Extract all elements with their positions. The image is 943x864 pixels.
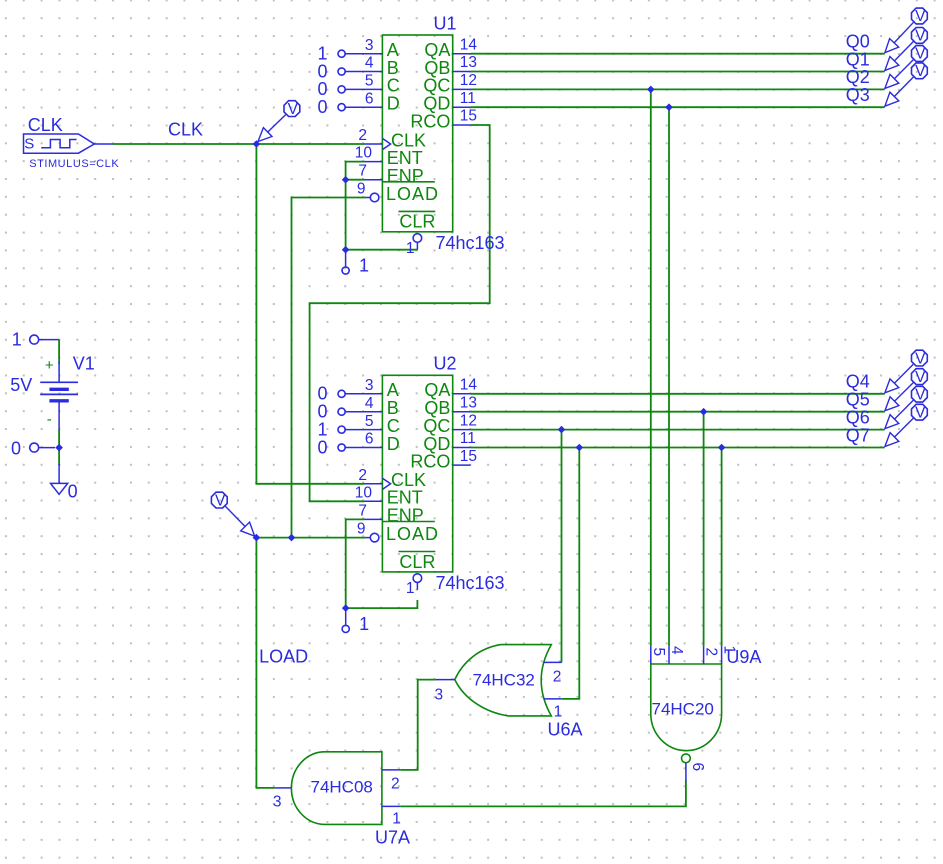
svg-text:ENT: ENT: [387, 488, 423, 508]
svg-text:V: V: [288, 101, 299, 118]
wire Q6 tap to U6A pin 2: [561, 430, 563, 663]
svg-text:7: 7: [358, 163, 367, 180]
voltage probe Q5: [885, 369, 927, 411]
svg-text:5: 5: [650, 648, 667, 657]
svg-text:5: 5: [365, 73, 374, 90]
U1 pin 7 (ENP) stub: [358, 163, 382, 180]
U1 output pin 14 (QA) stub: [453, 36, 478, 53]
U1 output pin 12 (QC) stub: [453, 72, 477, 89]
wire Q0 net (U1 QA to probe): [471, 53, 885, 55]
svg-text:74HC20: 74HC20: [652, 699, 714, 718]
U2 output pin 12 (QC) stub: [453, 412, 477, 429]
voltage probe Q3: [885, 63, 927, 106]
U1 output pin 13 (QB) stub: [453, 54, 477, 71]
LOAD junction: [253, 534, 261, 542]
svg-text:13: 13: [460, 54, 477, 71]
svg-text:V: V: [915, 63, 926, 80]
svg-text:CLR: CLR: [399, 552, 435, 572]
svg-text:6: 6: [365, 90, 374, 107]
svg-text:LOAD: LOAD: [259, 647, 308, 667]
counter U1 74HC163 body: [382, 35, 452, 232]
svg-text:2: 2: [553, 668, 562, 685]
svg-text:3: 3: [365, 37, 374, 54]
svg-text:1: 1: [554, 703, 563, 720]
svg-text:Q7: Q7: [846, 425, 870, 445]
svg-text:11: 11: [460, 430, 476, 447]
svg-text:4: 4: [365, 55, 374, 72]
svg-text:2: 2: [702, 648, 719, 657]
svg-text:V: V: [915, 28, 926, 45]
svg-text:1: 1: [359, 614, 369, 634]
svg-text:V: V: [915, 350, 926, 367]
wire Q6 net (U2 QC to probe): [471, 429, 885, 431]
U7A pin 3 (output) stub: [273, 788, 292, 811]
U6A pin 2 stub: [544, 662, 562, 685]
svg-text:RCO: RCO: [410, 111, 450, 131]
U2 CLR junction: [342, 604, 350, 612]
AND gate U7A 74HC08 (mirrored, output left): [291, 752, 382, 825]
U2 pin 9 (LOAD) bubble: [357, 521, 379, 542]
wire Q3 net (U1 QD to probe): [471, 106, 885, 108]
svg-text:4: 4: [365, 395, 374, 412]
svg-text:3: 3: [365, 377, 374, 394]
U6A pin 1 stub: [544, 699, 563, 720]
svg-text:1: 1: [12, 329, 22, 349]
digital stimulus DSTM1 CLK symbol: [24, 134, 113, 153]
svg-text:D: D: [387, 94, 400, 114]
wire Q5 net (U2 QB to probe): [471, 411, 885, 413]
svg-text:1: 1: [720, 646, 737, 655]
svg-text:74hc163: 74hc163: [436, 573, 505, 593]
voltage probe Q4: [885, 350, 927, 393]
voltage probe Q6: [885, 386, 927, 428]
svg-text:U1: U1: [434, 14, 457, 34]
svg-text:15: 15: [460, 108, 477, 125]
wire U1 RCO to U2 ENT: [310, 125, 490, 501]
U1 input pin 5 (C) with value 0: [317, 73, 382, 100]
U2 input pin 6 (D) with value 0: [317, 431, 382, 458]
OR gate U6A 74HC32 (mirrored, output left): [455, 645, 552, 716]
svg-text:11: 11: [460, 90, 476, 107]
svg-text:S: S: [24, 136, 34, 153]
U1 high port (1) below CLR: [342, 250, 369, 276]
svg-text:6: 6: [689, 763, 706, 772]
V1 port 0 (ground node): [11, 438, 55, 458]
svg-text:3: 3: [273, 793, 282, 810]
voltage probe on LOAD net: [211, 492, 254, 536]
svg-text:-: -: [47, 411, 52, 428]
voltage probe Q7: [885, 404, 927, 446]
U2 pin 2 (CLK) stub: [358, 467, 382, 484]
counter U2 74HC163 body: [382, 375, 452, 572]
svg-text:V: V: [915, 8, 926, 25]
svg-text:14: 14: [460, 36, 478, 53]
U1 ENP junction: [342, 176, 350, 184]
svg-text:2: 2: [358, 127, 367, 144]
wire Q5 tap to U9A pin 2: [703, 412, 705, 647]
ground symbol 0: [51, 464, 78, 502]
svg-text:V: V: [915, 369, 926, 386]
svg-text:0: 0: [317, 97, 327, 117]
Q6 tap junction: [558, 426, 566, 434]
U1 input pin 3 (A) with value 1: [317, 37, 382, 64]
U9A pin 4 stub: [668, 646, 685, 664]
svg-text:12: 12: [460, 72, 477, 89]
U9A pin 2 stub: [702, 646, 719, 664]
svg-text:15: 15: [460, 448, 477, 465]
U1 pin 2 (CLK) stub: [358, 127, 382, 144]
wire Q4 net (U2 QA to probe): [471, 393, 885, 395]
U7A pin 1 stub: [382, 806, 401, 827]
svg-text:D: D: [387, 434, 400, 454]
svg-text:U6A: U6A: [548, 720, 583, 740]
svg-text:RCO: RCO: [410, 451, 450, 471]
wire Q7 tap to U9A pin 1: [721, 448, 723, 647]
U7A pin 2 stub: [382, 770, 400, 792]
svg-text:LOAD: LOAD: [386, 184, 439, 204]
svg-text:V: V: [915, 404, 926, 421]
U2 pin 10 (ENT) stub: [355, 484, 383, 501]
Q7 tap junction B: [718, 444, 726, 452]
V1 ground junction: [55, 444, 63, 452]
svg-text:U2: U2: [434, 354, 457, 374]
Q7 tap junction A: [576, 444, 584, 452]
wire Q7 tap to U6A pin 1: [562, 448, 580, 699]
U2 input pin 5 (C) with value 1: [317, 413, 382, 440]
battery V1: [40, 362, 78, 431]
svg-text:3: 3: [435, 687, 444, 704]
U1 pin 10 (ENT) stub: [355, 145, 383, 162]
wire U2 ENP/CLR tie: [346, 519, 418, 608]
svg-text:74HC08: 74HC08: [311, 778, 373, 797]
U9A pin 5 stub: [650, 646, 667, 664]
svg-text:5: 5: [365, 413, 374, 430]
wire U1 ENP branch: [346, 179, 365, 181]
wire LOAD net down to U7A output: [256, 538, 275, 788]
voltage probe Q2: [885, 46, 927, 89]
svg-text:2: 2: [391, 775, 400, 792]
CLK junction: [253, 140, 261, 148]
Q3 tap junction: [665, 103, 673, 111]
U2 pin 1 (CLR) bubble and stub: [406, 574, 422, 597]
U2 output pin 11 (QD) stub: [453, 430, 476, 447]
wire U6A output to U7A pin 2: [400, 680, 436, 770]
U2 output pin 15 (RCO) stub: [453, 448, 477, 465]
svg-text:CLK: CLK: [28, 115, 63, 135]
wire CLK net: vertical drop to U2 CLK: [256, 144, 364, 484]
svg-text:9: 9: [357, 181, 366, 198]
svg-text:1: 1: [406, 240, 415, 257]
Q2 tap junction: [647, 86, 655, 94]
U1 LOAD junction: [288, 534, 296, 542]
svg-text:1: 1: [359, 256, 369, 276]
U1 pin 1 (CLR) bubble and stub: [406, 234, 422, 257]
svg-text:Q3: Q3: [846, 85, 870, 105]
svg-text:74HC32: 74HC32: [473, 671, 535, 690]
wire V1 minus: [58, 430, 60, 448]
wire U1 ENT/ENP/CLR tie: [346, 162, 418, 250]
svg-text:ENT: ENT: [387, 148, 423, 168]
svg-text:V: V: [215, 492, 226, 509]
svg-text:7: 7: [358, 502, 367, 519]
svg-text:CLK: CLK: [168, 120, 203, 140]
svg-text:10: 10: [355, 484, 373, 501]
U2 pin 7 (ENP) stub: [358, 502, 382, 519]
wire to ground: [58, 448, 60, 465]
wire V1 plus: [58, 340, 60, 364]
wire Q1 net (U1 QB to probe): [471, 71, 885, 73]
V1 port 1 (plus terminal node): [12, 329, 59, 349]
Q5 tap junction: [700, 408, 708, 416]
voltage probe Q1: [885, 28, 927, 71]
svg-text:12: 12: [460, 412, 477, 429]
U2 high port (1) below CLR: [342, 608, 369, 634]
U1 input pin 4 (B) with value 0: [317, 55, 382, 82]
svg-text:14: 14: [460, 377, 478, 394]
svg-text:9: 9: [357, 521, 366, 538]
svg-text:13: 13: [460, 394, 477, 411]
U1 pin 9 (LOAD) bubble: [357, 181, 379, 202]
svg-text:0: 0: [317, 437, 327, 457]
svg-text:+: +: [45, 357, 54, 374]
svg-text:CLR: CLR: [399, 212, 435, 232]
svg-text:U7A: U7A: [375, 828, 410, 848]
U2 output pin 13 (QB) stub: [453, 394, 477, 411]
NAND gate U9A 74HC20 (rotated, output down, with bubble): [651, 664, 722, 763]
wire Q2 tap to U9A pin 5: [650, 89, 652, 646]
U9A pin 6 (output) stub: [686, 763, 706, 782]
wire Q7 net (U2 QD to probe): [471, 447, 885, 449]
svg-text:1: 1: [392, 810, 401, 827]
U2 output pin 14 (QA) stub: [453, 377, 478, 394]
wire LOAD net horizontal to U2 LOAD: [256, 537, 366, 539]
U2 input pin 3 (A) with value 0: [317, 377, 382, 404]
svg-text:STIMULUS=CLK: STIMULUS=CLK: [29, 158, 119, 170]
svg-text:5V: 5V: [10, 375, 32, 395]
svg-text:V: V: [915, 386, 926, 403]
svg-text:1: 1: [406, 580, 415, 597]
U9A pin 1 stub: [720, 646, 737, 665]
U1 CLR junction: [342, 246, 350, 254]
svg-text:0: 0: [11, 438, 21, 458]
U6A pin 3 (output) stub: [435, 680, 455, 704]
U1 output pin 11 (QD) stub: [453, 90, 476, 107]
svg-text:4: 4: [668, 646, 685, 655]
svg-text:V: V: [915, 46, 926, 63]
U2 input pin 4 (B) with value 0: [317, 395, 382, 422]
svg-text:2: 2: [358, 467, 367, 484]
wire Q2 net (U1 QC to probe): [471, 88, 885, 90]
svg-text:74hc163: 74hc163: [436, 233, 505, 253]
voltage probe on CLK net: [258, 101, 300, 142]
wire Q3 tap to U9A pin 4: [668, 107, 670, 646]
wire CLK net: stimulus to U1 CLK pin: [113, 143, 365, 145]
svg-text:V1: V1: [73, 354, 95, 374]
voltage probe Q0: [885, 8, 927, 53]
svg-text:0: 0: [68, 482, 78, 502]
wire U7A pin 1 to U9A output: [400, 781, 686, 807]
U1 input pin 6 (D) with value 0: [317, 90, 382, 117]
svg-text:6: 6: [365, 431, 374, 448]
svg-text:LOAD: LOAD: [386, 524, 439, 544]
U1 output pin 15 (RCO) stub: [453, 108, 477, 125]
svg-text:10: 10: [355, 145, 373, 162]
wire U1 LOAD to LOAD net: [292, 198, 367, 538]
svg-text:ENP: ENP: [387, 506, 424, 526]
